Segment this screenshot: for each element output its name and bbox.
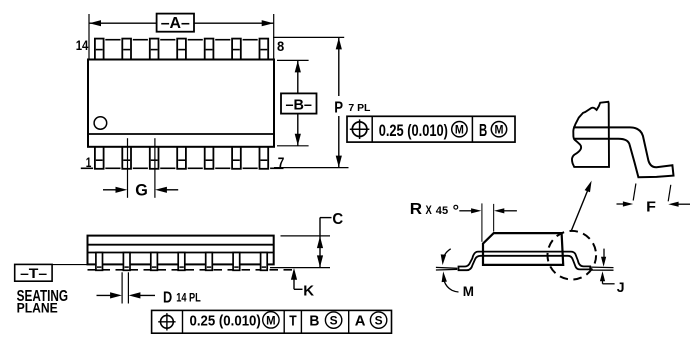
svg-text:S: S	[375, 314, 383, 328]
datum box -A-	[157, 14, 194, 32]
position symbol (top frame)	[352, 122, 367, 137]
dimension G arrows	[103, 189, 119, 191]
top view pin 3 (lead, bottom row)	[150, 146, 159, 169]
svg-text:K: K	[303, 283, 314, 300]
dimension C/K extension line bottom	[270, 267, 330, 269]
svg-text:–B–: –B–	[285, 97, 312, 113]
top view pin 6 (lead, bottom row)	[232, 146, 241, 169]
svg-text:B: B	[309, 312, 319, 329]
dimension G extension lines	[127, 138, 129, 198]
svg-text:J: J	[617, 280, 625, 295]
top view package body	[88, 60, 274, 147]
svg-text:–T–: –T–	[20, 265, 47, 281]
dashed lead-tip line, bottom row	[81, 167, 93, 169]
leader from -T- box to seating plane	[52, 264, 87, 266]
top view pin 7 (lead, bottom row)	[260, 146, 269, 169]
svg-text:C: C	[332, 211, 343, 228]
top view pin 13 (lead, top row)	[122, 39, 131, 60]
top view pin 12 (lead, top row)	[150, 39, 159, 60]
top view pin 4 (lead, bottom row)	[177, 146, 186, 169]
svg-text:PLANE: PLANE	[17, 299, 58, 315]
datum box -T-	[15, 264, 52, 281]
dimension A extension line right	[273, 14, 275, 59]
svg-text:X: X	[426, 203, 432, 217]
top view pin 9 (lead, top row)	[232, 39, 241, 60]
svg-text:–A–: –A–	[161, 15, 190, 32]
svg-text:G: G	[135, 181, 148, 200]
svg-text:14: 14	[76, 38, 89, 54]
top view pin 8 (lead, top row)	[260, 39, 269, 60]
svg-text:M: M	[266, 314, 276, 328]
dimension B line with arrows	[297, 60, 299, 93]
dimension J reference lines	[591, 266, 614, 269]
leader arrow from detail circle to magnified view	[571, 189, 588, 232]
dimension P extension line bottom	[274, 167, 349, 169]
svg-text:0.25 (0.010): 0.25 (0.010)	[190, 312, 261, 329]
svg-text:8: 8	[277, 39, 284, 55]
dimension D arrows	[97, 294, 114, 296]
svg-text:M: M	[495, 125, 504, 137]
seating plane dashed line	[88, 269, 293, 271]
svg-text:1: 1	[86, 155, 92, 171]
dimension M arc arrow upper	[443, 249, 451, 261]
svg-text:T: T	[289, 312, 297, 329]
side view lead 6	[233, 253, 240, 271]
detail circle (dashed)	[548, 231, 597, 280]
feature control frame (top): box	[347, 116, 515, 142]
side view lead 1	[96, 253, 103, 271]
svg-text:7 PL: 7 PL	[348, 103, 370, 114]
dimension J arrow upper	[603, 249, 605, 258]
svg-text:14 PL: 14 PL	[176, 291, 201, 305]
dimension C line with arrows	[319, 218, 321, 268]
top view pin 2 (lead, bottom row)	[122, 146, 131, 169]
svg-text:B: B	[479, 120, 487, 140]
svg-text:P: P	[334, 99, 343, 116]
svg-text:D: D	[163, 289, 172, 306]
svg-text:A: A	[355, 312, 366, 329]
dimension B extension line bottom	[277, 145, 309, 147]
side view package body	[88, 236, 274, 265]
top view pin 10 (lead, top row)	[205, 39, 214, 60]
side view lead 2	[123, 253, 130, 271]
svg-text:7: 7	[278, 155, 285, 171]
svg-text:45: 45	[436, 205, 448, 217]
top view pin 11 (lead, top row)	[177, 39, 186, 60]
dimension M arrow lower with leader	[442, 271, 447, 282]
dimension J arrow lower with leader	[600, 271, 605, 281]
dimension A extension line left	[88, 14, 90, 59]
position symbol (bottom frame)	[161, 315, 174, 328]
dimension C extension line top	[281, 235, 331, 237]
svg-text:S: S	[330, 314, 338, 328]
svg-text:F: F	[646, 199, 656, 216]
svg-text:R: R	[410, 201, 422, 218]
side view lead 3	[151, 253, 158, 271]
dimension F extension lines	[633, 184, 636, 201]
dimension F arrows	[617, 203, 625, 205]
svg-text:M: M	[463, 284, 474, 299]
end view lead (gull-wing, both sides)	[459, 252, 591, 271]
side view lead 5	[206, 253, 213, 271]
dimension B extension line top	[277, 59, 309, 61]
svg-text:0.25 (0.010): 0.25 (0.010)	[379, 122, 448, 140]
pin 1 index circle	[94, 117, 107, 130]
dimension R arrows and extension lines	[459, 210, 472, 212]
side view lead 4	[178, 253, 185, 271]
end view package body	[483, 233, 563, 265]
magnified view lead cross-section	[573, 127, 673, 177]
top view pin 5 (lead, bottom row)	[205, 146, 214, 169]
magnified view torn package body	[572, 102, 609, 167]
dimension P line with arrows	[338, 37, 340, 96]
dimension P extension line top	[273, 36, 344, 38]
top view pin 1 (lead, bottom row)	[95, 146, 104, 169]
svg-text:M: M	[455, 125, 464, 137]
feature control frame (bottom): box	[152, 310, 392, 333]
top view pin 14 (lead, top row)	[95, 39, 104, 60]
dimension A line with arrows	[89, 22, 157, 24]
dimension K arrow	[293, 271, 295, 289]
dimension M reference lines	[436, 266, 457, 269]
dashed lead-tip line, top row	[105, 39, 120, 41]
dimension D extension lines	[121, 272, 123, 303]
datum box -B-	[281, 93, 317, 113]
side view lead 7	[261, 253, 268, 271]
